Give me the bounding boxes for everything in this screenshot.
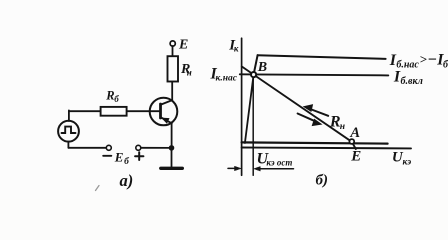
pulse generator G1 circle — [58, 121, 79, 142]
emitter arrowhead (points to base bar) — [162, 118, 169, 123]
terminal minus of Eб — [106, 145, 111, 150]
resistor Rб — [101, 107, 127, 116]
svg-text:кэ: кэ — [403, 158, 412, 168]
wire generator down — [67, 142, 69, 148]
svg-text:к: к — [234, 44, 239, 54]
curve Iб.нас flat top — [258, 55, 386, 59]
resistor Rн — [168, 56, 179, 81]
svg-text:н: н — [340, 122, 345, 132]
junction dot emitter/rail — [169, 146, 174, 151]
svg-text:к.нас: к.нас — [216, 74, 238, 84]
point B — [251, 72, 256, 77]
svg-text:н: н — [187, 68, 192, 78]
label plus sign — [135, 155, 143, 157]
dimension arrow left — [228, 167, 238, 169]
svg-text:>: > — [420, 52, 428, 67]
svg-text:б.: б. — [443, 60, 448, 71]
svg-text:A: A — [349, 125, 360, 141]
dimension arrow right — [257, 168, 294, 170]
curve Iб.нас rise — [254, 55, 258, 74]
wire bottom rail right — [141, 147, 172, 149]
curve Iб.вкл rise — [245, 75, 254, 143]
axis Uкэ (x) — [242, 147, 411, 150]
transistor VT1 circle — [150, 98, 178, 126]
ground stem — [171, 148, 173, 167]
arrow up-left along load line — [308, 108, 329, 116]
wire emitter down — [171, 123, 173, 148]
svg-text:E: E — [178, 38, 188, 53]
curve Iб.вкл flat — [240, 74, 388, 75]
point A — [349, 139, 354, 144]
transistor collector diagonal — [161, 100, 173, 105]
svg-text:б.вкл: б.вкл — [401, 76, 423, 87]
svg-text:R: R — [105, 89, 114, 103]
svg-text:E: E — [114, 150, 124, 165]
svg-text:б: б — [114, 94, 119, 104]
extension line Uкэ.ост from B — [252, 75, 254, 176]
terminal E (collector supply) — [170, 41, 175, 46]
scan artifact stroke — [96, 186, 100, 191]
wire generator to base corner — [68, 110, 70, 121]
transistor emitter diagonal — [161, 117, 172, 123]
wire Rб left — [69, 110, 101, 112]
curve Iб.выкл (cutoff) — [242, 142, 388, 143]
axis Iк (y) — [241, 38, 243, 175]
svg-text:E: E — [350, 149, 361, 165]
svg-text:−I: −I — [428, 52, 445, 69]
wire supply to Rн — [172, 46, 174, 57]
wire Rн to collector — [171, 81, 173, 101]
transistor base bar — [159, 104, 162, 118]
arrow down-right along load line — [298, 114, 313, 121]
svg-text:B: B — [257, 60, 267, 75]
load line Rн — [242, 67, 356, 150]
svg-text:кэ ост: кэ ост — [266, 158, 292, 168]
label minus sign — [103, 155, 111, 157]
wire base — [127, 110, 161, 112]
svg-text:б): б) — [316, 173, 328, 189]
ground bar — [161, 167, 183, 170]
terminal plus of Eб — [136, 145, 141, 150]
wire bottom rail left — [68, 147, 106, 149]
svg-text:а): а) — [120, 171, 134, 190]
pulse symbol — [62, 127, 76, 133]
